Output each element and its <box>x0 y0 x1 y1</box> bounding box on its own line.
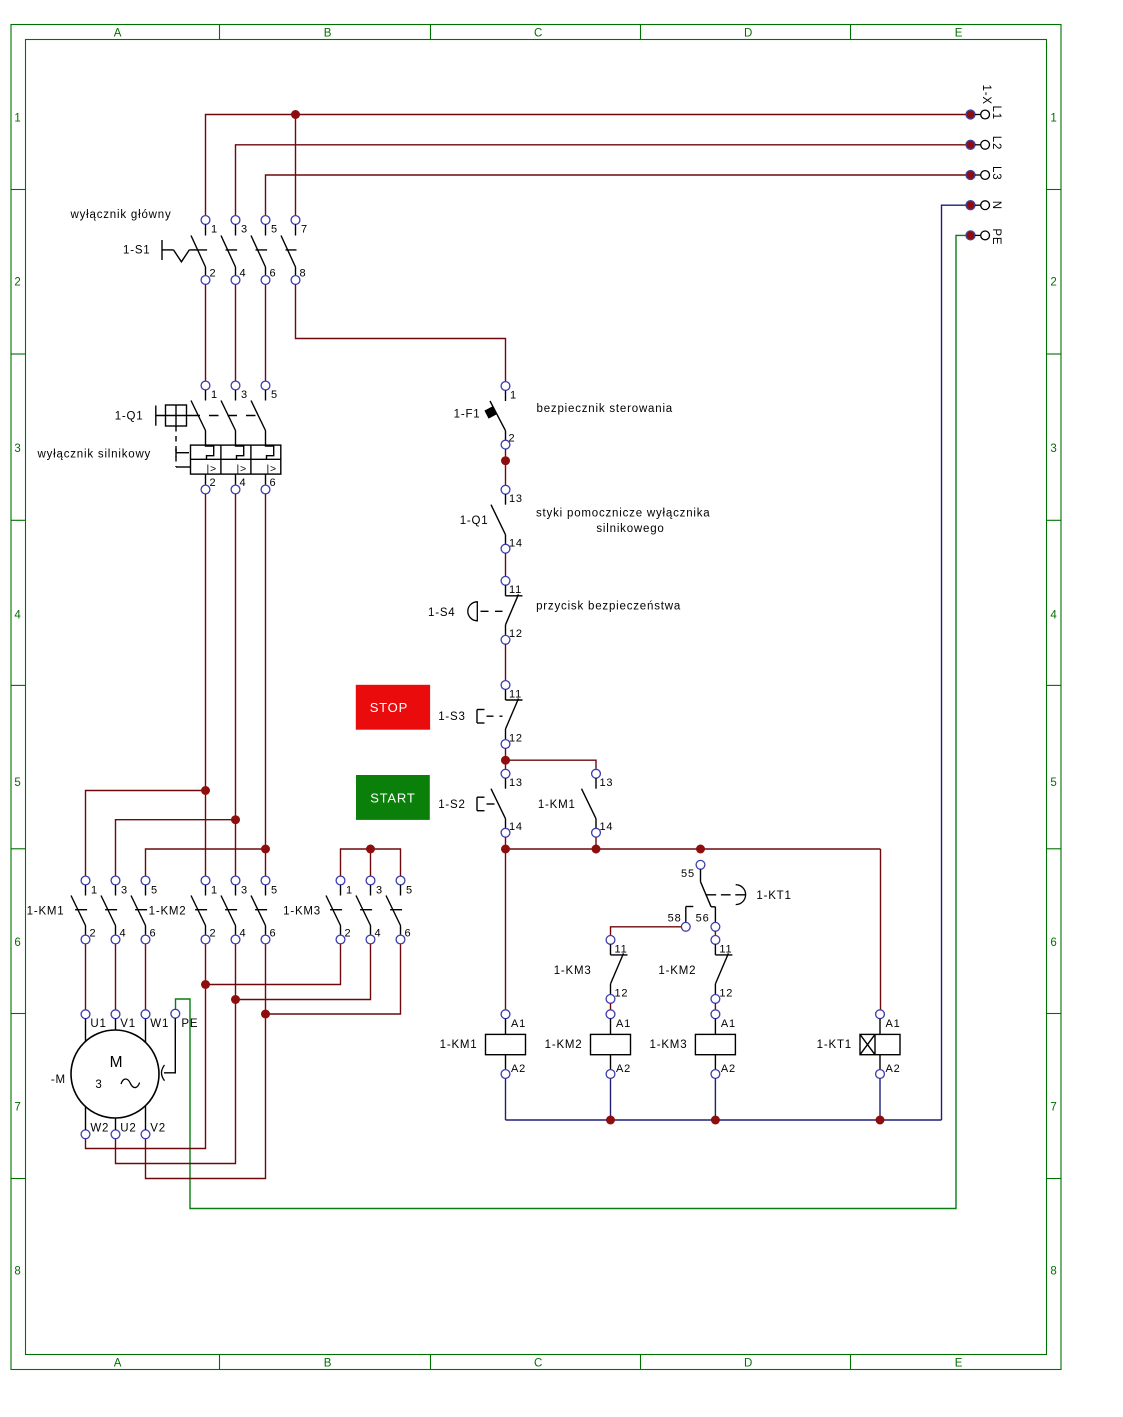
svg-text:D: D <box>744 1358 753 1370</box>
contactor 1-KM3 main contacts <box>326 876 405 944</box>
svg-text:|>: |> <box>267 463 277 475</box>
svg-text:5: 5 <box>14 777 21 789</box>
svg-text:3: 3 <box>14 443 21 455</box>
svg-text:3: 3 <box>121 885 128 897</box>
svg-text:4: 4 <box>240 268 247 280</box>
svg-text:8: 8 <box>300 268 307 280</box>
svg-text:8: 8 <box>1050 1266 1057 1278</box>
svg-text:1-KM2: 1-KM2 <box>545 1039 583 1051</box>
svg-text:12: 12 <box>509 732 523 744</box>
motor terminal W1 <box>141 1010 169 1042</box>
wire S1.4 to Q1.3 <box>235 284 237 381</box>
svg-text:6: 6 <box>14 937 21 949</box>
svg-text:4: 4 <box>240 477 247 489</box>
svg-text:|>: |> <box>237 463 247 475</box>
svg-text:L1: L1 <box>990 106 1002 120</box>
wire 1-KM2 aux to 1-KM3 coil <box>714 1003 716 1010</box>
junction rail at 1-KM1 aux <box>592 845 601 854</box>
svg-text:1-KM2: 1-KM2 <box>149 906 187 918</box>
svg-text:silnikowego: silnikowego <box>596 523 664 535</box>
svg-text:-M: -M <box>51 1074 66 1086</box>
svg-text:1: 1 <box>346 885 353 897</box>
wire phase B to 1-KM1/1-KM2 <box>116 494 236 876</box>
wire star bridge to 1-KM3 <box>341 849 401 876</box>
svg-text:A1: A1 <box>721 1018 736 1030</box>
svg-text:C: C <box>534 1358 543 1370</box>
auxiliary contact 1-KM3 11-12 <box>606 936 627 1004</box>
svg-text:1-KT1: 1-KT1 <box>817 1039 852 1051</box>
svg-text:55: 55 <box>681 868 695 880</box>
pins 1-S4 <box>509 584 523 640</box>
svg-text:U1: U1 <box>90 1018 106 1030</box>
svg-text:11: 11 <box>509 688 522 700</box>
svg-text:7: 7 <box>301 224 308 236</box>
svg-text:12: 12 <box>509 628 523 640</box>
wire S1.2 to Q1.1 <box>205 284 207 381</box>
coil 1-KT1 (timer) <box>860 1010 900 1079</box>
motor terminal U2 <box>111 1118 137 1139</box>
junction rail 1-KT1 coil <box>876 1116 885 1125</box>
svg-text:11: 11 <box>719 943 732 955</box>
svg-text:1-KM3: 1-KM3 <box>283 906 321 918</box>
wire PE (protective earth) <box>176 235 966 1208</box>
svg-text:14: 14 <box>600 821 614 833</box>
contactor 1-KM2 main contacts <box>191 876 270 944</box>
svg-text:V1: V1 <box>120 1018 136 1030</box>
pins 1-KT1 coil <box>886 1018 901 1075</box>
svg-text:PE: PE <box>181 1018 198 1030</box>
terminal 1-X L3 <box>966 166 1002 180</box>
wire L1 <box>206 115 966 216</box>
svg-text:4: 4 <box>375 928 382 940</box>
svg-text:1-S3: 1-S3 <box>438 711 466 723</box>
wire 1-KM1.4 to motor V1 <box>115 944 117 1010</box>
svg-text:5: 5 <box>406 885 413 897</box>
wire 1-S4 to 1-S3 <box>505 644 507 681</box>
svg-text:1-Q1: 1-Q1 <box>115 411 144 423</box>
svg-text:5: 5 <box>1050 777 1057 789</box>
terminal 1-X L1 <box>966 106 1002 120</box>
motor PE bond to frame <box>162 1018 176 1081</box>
terminal 1-X N <box>966 201 1002 210</box>
wire S1.6 to Q1.5 <box>265 284 267 381</box>
svg-text:B: B <box>324 28 332 40</box>
wire control rail <box>506 837 881 1010</box>
pins 1-KM2 coil <box>616 1018 631 1075</box>
svg-text:1-S2: 1-S2 <box>438 799 466 811</box>
svg-text:A1: A1 <box>886 1018 901 1030</box>
svg-text:6: 6 <box>1050 937 1057 949</box>
svg-text:U2: U2 <box>120 1123 136 1135</box>
svg-text:1-KM3: 1-KM3 <box>554 965 592 977</box>
svg-text:7: 7 <box>14 1102 21 1114</box>
auxiliary contact 1-Q1 13-14 <box>491 485 510 553</box>
svg-text:1-KT1: 1-KT1 <box>756 890 791 902</box>
svg-text:1-KM1: 1-KM1 <box>27 906 65 918</box>
svg-text:1: 1 <box>211 389 218 401</box>
svg-text:|>: |> <box>207 463 217 475</box>
svg-text:6: 6 <box>405 928 412 940</box>
wire 1-KM2.6 / 1-KM3.6 to motor V2 <box>146 944 401 1178</box>
svg-text:W2: W2 <box>90 1123 109 1135</box>
svg-text:8: 8 <box>14 1266 21 1278</box>
junction L1/pole7 <box>291 110 300 119</box>
junction rail 1-KM2 coil <box>606 1116 615 1125</box>
pins 1-KM1 coil <box>511 1018 526 1075</box>
svg-text:13: 13 <box>509 777 523 789</box>
svg-text:11: 11 <box>615 943 628 955</box>
svg-text:5: 5 <box>271 224 278 236</box>
pins 1-S2 <box>509 777 523 833</box>
svg-text:1: 1 <box>211 885 218 897</box>
svg-text:1: 1 <box>510 389 517 401</box>
svg-text:1: 1 <box>1050 113 1057 125</box>
svg-text:4: 4 <box>240 928 247 940</box>
svg-text:5: 5 <box>271 885 278 897</box>
junction phase A <box>201 786 210 795</box>
svg-text:3: 3 <box>95 1079 102 1091</box>
pins 1-Q1 aux <box>509 493 523 550</box>
svg-text:W1: W1 <box>150 1018 169 1030</box>
svg-text:A: A <box>114 28 122 40</box>
wire 58 to 1-KM3 aux <box>611 927 682 936</box>
svg-text:bezpiecznik sterowania: bezpiecznik sterowania <box>537 403 674 415</box>
wire 1-Q1 aux to 1-S4 <box>505 553 507 576</box>
svg-text:PE: PE <box>990 228 1002 245</box>
svg-text:3: 3 <box>376 885 383 897</box>
motor terminal V2 <box>141 1106 166 1139</box>
svg-text:A2: A2 <box>511 1063 526 1075</box>
svg-text:B: B <box>324 1358 332 1370</box>
svg-text:A: A <box>114 1358 122 1370</box>
svg-text:14: 14 <box>509 821 523 833</box>
pins 1-KM3 coil <box>721 1018 736 1075</box>
contactor 1-KM1 main contacts <box>71 876 150 944</box>
svg-text:E: E <box>955 28 963 40</box>
svg-text:STOP: STOP <box>370 700 408 715</box>
svg-text:12: 12 <box>719 988 733 1000</box>
svg-text:3: 3 <box>241 389 248 401</box>
wire L3 <box>266 175 966 216</box>
svg-text:2: 2 <box>1050 277 1057 289</box>
svg-text:3: 3 <box>1050 443 1057 455</box>
svg-text:A2: A2 <box>616 1063 631 1075</box>
wire N (neutral riser) <box>942 205 966 1120</box>
wire phase C to 1-KM1/1-KM2 <box>146 494 266 876</box>
junction rail at 1-KM1 coil <box>501 845 510 854</box>
stop pushbutton 1-S3 <box>477 681 523 749</box>
svg-text:3: 3 <box>241 224 248 236</box>
svg-text:C: C <box>534 28 543 40</box>
svg-text:13: 13 <box>600 777 614 789</box>
svg-text:5: 5 <box>271 389 278 401</box>
start pushbutton 1-S2 <box>477 769 510 837</box>
pins 1-F1 <box>509 389 517 444</box>
svg-text:6: 6 <box>270 928 277 940</box>
svg-text:wyłącznik główny: wyłącznik główny <box>70 209 172 221</box>
svg-text:6: 6 <box>270 477 277 489</box>
svg-text:przycisk bezpieczeństwa: przycisk bezpieczeństwa <box>536 600 681 612</box>
svg-text:2: 2 <box>14 277 21 289</box>
wire 1-S3 to 1-S2 and 1-KM1 aux <box>506 748 597 769</box>
motor circuit breaker 1-Q1 <box>156 381 281 494</box>
svg-text:56: 56 <box>696 913 710 925</box>
svg-text:A2: A2 <box>721 1063 736 1075</box>
svg-text:1: 1 <box>14 113 21 125</box>
wire 1-KM1.6 to motor W1 <box>145 944 147 1010</box>
junction below fuse <box>501 456 510 465</box>
svg-text:12: 12 <box>615 988 629 1000</box>
coil 1-KM3 <box>695 1010 735 1079</box>
pins 1-KM3 aux <box>615 943 629 999</box>
motor terminal PE <box>171 1009 198 1030</box>
label styki pomocznicze wylacznika silnikowego <box>536 508 711 536</box>
svg-text:1-KM1: 1-KM1 <box>538 799 576 811</box>
svg-text:wyłącznik silnikowy: wyłącznik silnikowy <box>37 448 152 460</box>
junction rail 1-KM3 coil <box>711 1116 720 1125</box>
STOP button <box>356 685 430 730</box>
svg-text:1-X: 1-X <box>980 85 992 105</box>
svg-text:58: 58 <box>668 913 682 925</box>
junction phase B <box>231 815 240 824</box>
svg-text:A1: A1 <box>511 1018 526 1030</box>
svg-text:1-S1: 1-S1 <box>123 245 151 257</box>
terminal 1-X L2 <box>966 136 1002 150</box>
START button <box>356 775 430 820</box>
svg-text:5: 5 <box>151 885 158 897</box>
svg-text:2: 2 <box>210 268 217 280</box>
wire 1-KM2.2 / 1-KM3.2 to motor W2 <box>86 944 341 1148</box>
svg-text:4: 4 <box>1050 610 1057 622</box>
pins 1-KM2 aux <box>719 943 733 999</box>
fuse 1-F1 <box>484 382 509 449</box>
junction V2 net <box>261 1010 270 1019</box>
main switch 1-S1 <box>162 216 300 285</box>
junction stop-start <box>501 756 510 765</box>
svg-text:1-KM1: 1-KM1 <box>440 1039 478 1051</box>
svg-text:A1: A1 <box>616 1018 631 1030</box>
junction U2 net <box>231 995 240 1004</box>
pins 1-Q1 <box>210 389 278 489</box>
svg-text:1: 1 <box>91 885 98 897</box>
svg-text:1-F1: 1-F1 <box>454 409 481 421</box>
motor terminal W2 <box>81 1107 109 1139</box>
svg-text:1-KM2: 1-KM2 <box>658 965 696 977</box>
svg-text:L3: L3 <box>990 166 1002 180</box>
wire coil return rail to N <box>506 1078 942 1120</box>
wire 1-F1 to 1-Q1 aux <box>505 449 507 485</box>
svg-text:2: 2 <box>90 928 97 940</box>
auxiliary contact 1-KM2 11-12 <box>711 936 732 1004</box>
wire 1-KM2.4 / 1-KM3.4 to motor U2 <box>116 944 371 1163</box>
safety pushbutton 1-S4 <box>468 576 523 644</box>
svg-text:13: 13 <box>509 493 523 505</box>
wire S1.8 to fuse 1-F1 <box>296 284 506 381</box>
svg-text:6: 6 <box>270 268 277 280</box>
svg-text:14: 14 <box>509 538 523 550</box>
svg-text:2: 2 <box>345 928 352 940</box>
timer contact 1-KT1 55-56-58 <box>681 860 745 931</box>
pins 1-KT1 contact <box>668 868 710 925</box>
svg-text:1-Q1: 1-Q1 <box>460 515 489 527</box>
junction W2 net <box>201 980 210 989</box>
svg-text:3: 3 <box>241 885 248 897</box>
wire 1-KM1.2 to motor U1 <box>85 944 87 1010</box>
svg-text:4: 4 <box>14 610 21 622</box>
coil 1-KM1 <box>486 1010 526 1079</box>
pins 1-S1 <box>210 224 308 280</box>
junction star bridge <box>366 845 375 854</box>
svg-text:1-KM3: 1-KM3 <box>650 1039 688 1051</box>
svg-text:L2: L2 <box>990 136 1002 150</box>
motor terminal V1 <box>111 1010 136 1030</box>
svg-text:2: 2 <box>210 928 217 940</box>
coil 1-KM2 <box>591 1010 631 1079</box>
svg-text:D: D <box>744 28 753 40</box>
svg-text:styki pomocznicze wyłącznika: styki pomocznicze wyłącznika <box>536 508 711 520</box>
svg-text:A2: A2 <box>886 1063 901 1075</box>
svg-text:1: 1 <box>211 224 218 236</box>
svg-text:N: N <box>990 201 1002 210</box>
junction rail at 1-KT1 contact <box>696 845 705 854</box>
svg-text:E: E <box>955 1358 963 1370</box>
terminal 1-X PE <box>966 228 1002 245</box>
wire phase A to 1-KM1/1-KM2 <box>86 494 206 876</box>
svg-text:1-S4: 1-S4 <box>428 607 456 619</box>
svg-text:START: START <box>370 790 415 805</box>
pins 1-S3 <box>509 688 523 744</box>
wire L2 <box>236 145 966 216</box>
junction phase C <box>261 845 270 854</box>
svg-text:V2: V2 <box>150 1123 166 1135</box>
motor -M <box>71 1030 159 1118</box>
auxiliary contact 1-KM1 13-14 <box>582 769 601 837</box>
svg-text:11: 11 <box>509 584 522 596</box>
svg-text:M: M <box>110 1054 124 1071</box>
svg-text:6: 6 <box>150 928 157 940</box>
svg-text:7: 7 <box>1050 1102 1057 1114</box>
pins 1-KM1 aux <box>600 777 614 833</box>
svg-text:2: 2 <box>210 477 217 489</box>
wire 1-KM3 aux to 1-KM2 coil <box>610 1003 612 1010</box>
svg-text:4: 4 <box>120 928 127 940</box>
motor terminal U1 <box>81 1010 107 1041</box>
wire 56 to 1-KM2 aux <box>714 931 716 935</box>
svg-text:2: 2 <box>509 433 516 445</box>
